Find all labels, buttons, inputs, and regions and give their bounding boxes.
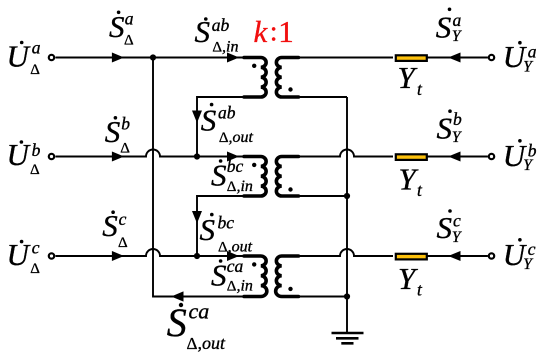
junction neutral / secondary 2	[344, 193, 350, 199]
wire phase b primary (hop over delta line)	[56, 150, 253, 157]
label Yt a	[398, 60, 424, 99]
wire phase a secondary	[290, 57, 488, 59]
arrow S delta b	[112, 152, 122, 161]
label S delta in ab	[195, 14, 239, 56]
ground	[332, 333, 364, 343]
wire neutral	[346, 97, 348, 333]
svg-text:Y: Y	[398, 261, 418, 296]
label S Y c	[437, 209, 462, 246]
svg-text:ab: ab	[218, 102, 236, 122]
wire phase b secondary (hop over neutral)	[290, 150, 488, 157]
terminal circle U delta a	[49, 55, 54, 60]
svg-text:ca: ca	[227, 256, 244, 276]
svg-text:Y: Y	[523, 59, 533, 76]
svg-text:Δ: Δ	[124, 33, 134, 49]
svg-text:a: a	[453, 10, 462, 30]
wire ab winding bottom to node b	[197, 97, 250, 157]
svg-text:S: S	[102, 208, 118, 243]
transformer U3 primary winding	[244, 256, 267, 297]
polarity dot U2 primary	[252, 163, 256, 167]
label U delta c	[7, 237, 41, 277]
label k:1 ratio	[254, 14, 294, 49]
junction node a / delta line	[150, 54, 156, 60]
arrow S Y a (left)	[450, 53, 461, 62]
arrow S delta in bc	[228, 152, 238, 161]
arrow S delta out ab (down)	[193, 111, 202, 122]
svg-text:S: S	[211, 157, 227, 192]
svg-text:1: 1	[278, 14, 294, 49]
svg-text:Δ: Δ	[120, 140, 130, 156]
label S delta in bc	[211, 156, 253, 195]
svg-text:Δ: Δ	[30, 62, 40, 78]
wire phase c primary (hop over delta line)	[56, 249, 253, 256]
svg-text:S: S	[437, 210, 453, 245]
polarity dot U1 primary	[252, 64, 256, 68]
svg-text:ab: ab	[212, 15, 230, 35]
svg-text:Y: Y	[523, 256, 533, 273]
terminal circle U Y a	[489, 55, 494, 60]
wire phase c secondary (hop over neutral)	[290, 249, 488, 256]
arrow S delta out ca (left)	[173, 292, 184, 301]
svg-text:Y: Y	[523, 157, 533, 174]
arrow S delta in ca	[228, 252, 238, 261]
arrow S delta a	[112, 53, 122, 62]
polarity dot U3 primary	[252, 262, 256, 266]
svg-text:b: b	[32, 140, 41, 160]
arrow S delta in ab	[228, 53, 238, 62]
terminal circle U Y c	[489, 253, 494, 258]
svg-text:S: S	[167, 300, 187, 345]
junction node b / ab out	[194, 153, 200, 159]
svg-text:Y: Y	[452, 28, 462, 45]
svg-text:Δ: Δ	[118, 235, 128, 251]
svg-text:ca: ca	[189, 298, 210, 323]
label S Y a	[436, 8, 462, 46]
svg-text:Δ,out: Δ,out	[187, 333, 226, 353]
transformer U1 primary winding	[244, 58, 266, 98]
svg-text:Δ,in: Δ,in	[227, 278, 253, 295]
transformer U3 secondary winding	[276, 256, 299, 297]
label S delta out bc	[200, 212, 253, 256]
svg-text:Y: Y	[452, 129, 462, 146]
svg-text:c: c	[453, 211, 461, 231]
svg-text:Δ,in: Δ,in	[227, 178, 253, 195]
label S delta in ca	[211, 256, 253, 295]
terminal circle U delta b	[49, 154, 54, 159]
svg-text:b: b	[453, 109, 462, 129]
label Yt c	[398, 261, 423, 300]
svg-text::: :	[270, 17, 278, 48]
transformer U2 primary winding	[244, 157, 266, 197]
svg-text:Y: Y	[398, 60, 418, 95]
svg-text:U: U	[7, 137, 32, 172]
junction neutral / secondary 3	[344, 293, 350, 299]
wire secondary 3 bottom to neutral	[290, 296, 347, 298]
label U Y c	[503, 237, 536, 273]
svg-text:S: S	[195, 14, 211, 49]
label S delta c	[102, 208, 128, 251]
svg-text:U: U	[7, 237, 32, 272]
label U delta b	[7, 137, 41, 178]
svg-text:t: t	[417, 279, 423, 299]
terminal circle U Y b	[489, 154, 494, 159]
svg-text:S: S	[200, 212, 216, 247]
svg-text:bc: bc	[218, 212, 235, 232]
wire phase a primary	[56, 57, 253, 59]
svg-text:S: S	[201, 102, 217, 137]
arrow S Y c (left)	[450, 252, 461, 261]
svg-text:S: S	[437, 110, 453, 145]
label U delta a	[7, 38, 41, 78]
svg-text:Δ,out: Δ,out	[219, 129, 254, 146]
svg-text:Y: Y	[452, 229, 462, 246]
label S delta b	[105, 114, 131, 157]
admittance box Yt phase a	[396, 55, 427, 61]
svg-text:S: S	[105, 114, 121, 149]
label Yt b	[399, 161, 424, 200]
svg-text:Δ,out: Δ,out	[218, 239, 253, 256]
svg-text:k: k	[254, 14, 269, 49]
wire secondary 2 bottom to neutral	[290, 195, 347, 197]
svg-text:Δ,in: Δ,in	[212, 39, 238, 56]
transformer U2 secondary winding	[276, 157, 298, 197]
polarity dot U2 secondary	[288, 187, 292, 191]
terminal circle U delta c	[49, 253, 54, 258]
arrow S Y b (left)	[450, 152, 461, 161]
admittance box Yt phase c	[396, 254, 427, 260]
label U Y b	[503, 138, 537, 174]
svg-text:c: c	[32, 238, 40, 258]
label S delta out ca (large)	[167, 298, 226, 353]
arrow S delta c	[112, 252, 122, 261]
svg-text:S: S	[436, 9, 452, 44]
svg-text:S: S	[211, 257, 227, 292]
wire secondary 1 bottom to neutral	[290, 96, 347, 98]
arrow S delta out bc (down)	[193, 212, 202, 223]
svg-text:a: a	[32, 38, 41, 58]
wire delta line from node a down to ca winding bottom	[153, 58, 250, 297]
svg-text:b: b	[121, 114, 130, 134]
label S Y b	[437, 109, 463, 146]
junction node c / bc out	[194, 253, 200, 259]
svg-text:U: U	[7, 39, 32, 74]
svg-text:c: c	[119, 209, 127, 229]
svg-text:Δ: Δ	[30, 261, 40, 277]
label S delta a	[109, 9, 134, 49]
label U Y a	[503, 39, 537, 75]
label S delta out ab	[201, 102, 254, 146]
polarity dot U3 secondary	[288, 287, 292, 291]
svg-text:Y: Y	[399, 161, 419, 196]
svg-text:t: t	[417, 79, 423, 99]
wire bc winding bottom to node c	[197, 196, 250, 256]
svg-text:a: a	[125, 9, 134, 29]
polarity dot U1 secondary	[288, 87, 292, 91]
admittance box Yt phase b	[396, 154, 427, 160]
svg-text:S: S	[109, 9, 125, 44]
transformer U1 secondary winding	[276, 58, 298, 98]
svg-text:t: t	[417, 180, 423, 200]
svg-text:Δ: Δ	[30, 162, 40, 178]
svg-text:bc: bc	[227, 156, 244, 176]
